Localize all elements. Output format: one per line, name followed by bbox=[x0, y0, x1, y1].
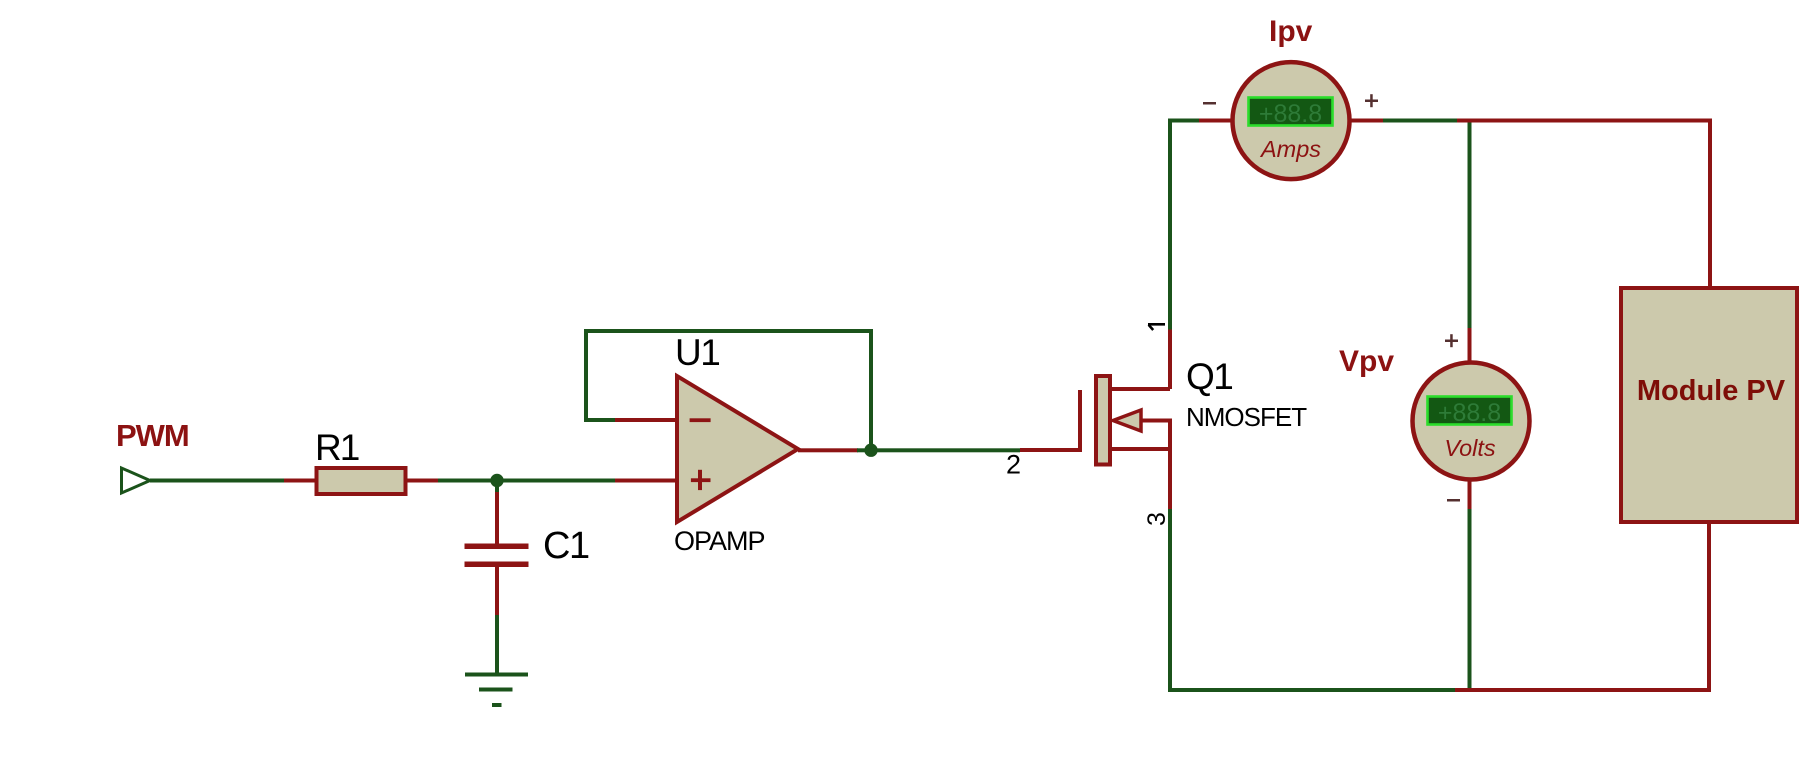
wire ammeter to Module PV top rail bbox=[1383, 119, 1458, 123]
transistor Q1 drain lead bbox=[1112, 387, 1170, 391]
capacitor C1 top plate bbox=[465, 544, 529, 550]
ground bbox=[465, 673, 528, 708]
transistor Q1 gate pin bbox=[1020, 448, 1082, 452]
voltmeter Vpv minus pin bbox=[1468, 480, 1472, 509]
module PV body bbox=[1621, 288, 1797, 522]
svg-text:Ipv: Ipv bbox=[1269, 15, 1313, 48]
wire top rail red segment to Module PV bbox=[1457, 119, 1712, 123]
op-amp U1 minus pin bbox=[615, 418, 678, 422]
wire Q1 drain up to top rail bbox=[1168, 119, 1172, 330]
wire bottom rail red segment bbox=[1455, 688, 1711, 692]
svg-text:+88.8: +88.8 bbox=[1259, 100, 1322, 128]
svg-text:Volts: Volts bbox=[1444, 435, 1496, 461]
op-amp U1 output pin bbox=[798, 448, 858, 452]
wire top rail to ammeter minus bbox=[1168, 119, 1200, 123]
op-amp U1 plus input symbol bbox=[691, 470, 711, 490]
op-amp U1 body bbox=[677, 376, 798, 522]
capacitor C1 bottom plate bbox=[465, 562, 529, 568]
transistor Q1 source lead bbox=[1112, 447, 1170, 451]
transistor Q1 pin number 1 bbox=[1148, 324, 1165, 330]
svg-text:C1: C1 bbox=[543, 525, 589, 567]
transistor Q1 gate bar bbox=[1078, 390, 1082, 451]
capacitor C1 pin top bbox=[495, 492, 499, 544]
wire opamp feedback loop bbox=[586, 331, 871, 449]
op-amp U1 minus input symbol bbox=[690, 418, 711, 422]
op-amp U1 plus pin bbox=[615, 479, 678, 483]
svg-text:2: 2 bbox=[1006, 450, 1021, 480]
wire Module PV top pin bbox=[1708, 119, 1712, 289]
wire node A down to C1 bbox=[495, 480, 499, 493]
svg-text:NMOSFET: NMOSFET bbox=[1186, 402, 1307, 432]
transistor Q1 channel bar bbox=[1096, 376, 1110, 465]
resistor R1 pin right bbox=[406, 479, 438, 483]
ammeter Ipv LCD display bbox=[1249, 98, 1333, 126]
voltmeter Vpv body bbox=[1413, 363, 1530, 480]
transistor Q1 bulk lead bbox=[1141, 419, 1170, 423]
svg-text:PWM: PWM bbox=[116, 418, 189, 453]
wire R1 to node A bbox=[438, 479, 498, 483]
voltmeter Vpv LCD display bbox=[1428, 397, 1512, 425]
wire PWM to R1 bbox=[150, 479, 284, 483]
resistor R1 pin left bbox=[284, 479, 316, 483]
voltmeter Vpv plus mark bbox=[1445, 334, 1458, 347]
voltmeter Vpv minus mark bbox=[1447, 499, 1460, 502]
ammeter Ipv minus mark bbox=[1203, 102, 1216, 105]
transistor Q1 drain pin up bbox=[1168, 329, 1172, 389]
transistor Q1 source pin down bbox=[1168, 419, 1172, 512]
svg-text:Module PV: Module PV bbox=[1637, 375, 1786, 407]
wire Q1 source down to bottom rail bbox=[1168, 509, 1172, 692]
wire C1 to ground bbox=[495, 615, 499, 675]
svg-text:U1: U1 bbox=[675, 332, 719, 373]
resistor R1 body bbox=[317, 468, 406, 494]
terminal PWM input bbox=[122, 468, 151, 493]
wire bottom rail green segment bbox=[1168, 688, 1455, 692]
ammeter Ipv minus pin bbox=[1199, 119, 1233, 123]
wire Module PV bottom pin bbox=[1707, 522, 1711, 692]
svg-text:Vpv: Vpv bbox=[1339, 345, 1394, 378]
svg-text:OPAMP: OPAMP bbox=[674, 526, 765, 556]
ammeter Ipv body bbox=[1233, 62, 1350, 179]
wire node A to opamp plus pin bbox=[497, 479, 617, 483]
wire top rail down to voltmeter plus bbox=[1468, 123, 1472, 330]
voltmeter Vpv plus pin bbox=[1468, 328, 1472, 361]
wire feedback to minus pin bbox=[584, 418, 617, 422]
svg-text:+88.8: +88.8 bbox=[1438, 399, 1501, 427]
transistor Q1 substrate arrow bbox=[1113, 410, 1141, 431]
svg-text:3: 3 bbox=[1143, 512, 1171, 526]
node A junction dot bbox=[490, 474, 503, 487]
svg-text:Amps: Amps bbox=[1259, 136, 1321, 162]
ammeter Ipv plus mark bbox=[1365, 94, 1378, 107]
node B junction dot bbox=[864, 444, 877, 457]
wire voltmeter minus to bottom rail bbox=[1468, 509, 1472, 692]
capacitor C1 pin bottom bbox=[495, 567, 499, 615]
svg-text:Q1: Q1 bbox=[1186, 356, 1232, 397]
wire opamp output to Q1 gate bbox=[857, 448, 1020, 452]
svg-text:R1: R1 bbox=[315, 427, 359, 468]
ammeter Ipv plus pin bbox=[1350, 119, 1384, 123]
